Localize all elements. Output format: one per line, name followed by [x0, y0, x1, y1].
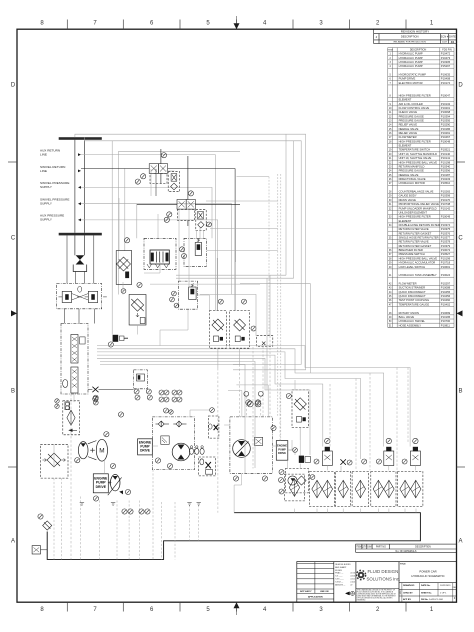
svg-text:NOT ASS'Y: NOT ASS'Y [300, 590, 312, 593]
sampling valve SV [257, 336, 273, 347]
svg-text:FLOW METER: FLOW METER [399, 282, 417, 286]
gauge above CA3 [413, 438, 418, 443]
hydraulic pump P1 [78, 442, 88, 459]
svg-text:10/22/2019: 10/22/2019 [440, 585, 451, 587]
svg-text:APPLICATION: APPLICATION [308, 596, 323, 599]
disclaimer text [356, 588, 399, 590]
svg-text:P10340: P10340 [441, 164, 451, 168]
swivel riser wires [74, 140, 76, 233]
svg-text:HYDRAULIC SCHEMATIC: HYDRAULIC SCHEMATIC [411, 574, 444, 578]
riser header h2 [119, 150, 241, 152]
svg-text:RELIEF VALVE: RELIEF VALVE [399, 131, 418, 135]
svg-text:FLUID DESIGN: FLUID DESIGN [368, 569, 399, 574]
svg-text:APP BY:: APP BY: [403, 598, 412, 601]
gauge G40 [347, 460, 352, 465]
gauge G19 [93, 396, 98, 401]
svg-text:DATE: DATE [449, 35, 456, 39]
gauge G27 [125, 489, 130, 494]
return filter RF6 [397, 472, 423, 507]
svg-text:U/M: U/M [367, 547, 371, 549]
gauge RFg1 [279, 478, 284, 483]
gauge G7 [207, 222, 212, 227]
svg-text:ELEMENT: ELEMENT [399, 219, 412, 223]
svg-text:ITEM: ITEM [356, 547, 362, 549]
charge pump P3 [172, 443, 190, 461]
swivel manifold bar bottom [59, 233, 102, 236]
svg-text:DESCRIPTION: DESCRIPTION [410, 49, 427, 52]
test points TP3 [159, 397, 164, 402]
gauge G39 [279, 470, 284, 475]
relief cartridge RV1 [62, 291, 71, 302]
svg-text:RETURN FILTER VALVE: RETURN FILTER VALVE [399, 240, 429, 244]
revision history table [374, 29, 457, 43]
svg-text:±1/16: ±1/16 [350, 573, 355, 575]
svg-text:B: B [458, 389, 462, 395]
gauge G41 [314, 459, 319, 464]
test points TP4 [172, 397, 177, 402]
svg-text:ENGINE: ENGINE [277, 444, 287, 448]
gauge G32 [255, 400, 260, 405]
gauge G35 [271, 425, 276, 430]
check row CR3 [200, 448, 204, 454]
high pressure filter F1 [129, 295, 146, 326]
svg-text:PUMP DRIVE: PUMP DRIVE [399, 77, 416, 81]
svg-text:PRESSURE GAUGE: PRESSURE GAUGE [399, 114, 424, 118]
svg-text:CHECK VALVE: CHECK VALVE [399, 110, 418, 114]
svg-text:P10738: P10738 [441, 202, 451, 206]
svg-text:FLOW CONTROL VALVE: FLOW CONTROL VALVE [399, 106, 430, 110]
aux return trunk [81, 155, 215, 311]
svg-text:D: D [11, 83, 16, 89]
svg-text:P10395: P10395 [441, 118, 451, 122]
swivel manifold bar top [59, 137, 102, 140]
staircase trunk s3 [97, 352, 361, 459]
main pump P4 [233, 440, 251, 458]
svg-text:D: D [458, 83, 463, 89]
svg-text:HOSE ASSEMBLY: HOSE ASSEMBLY [399, 323, 422, 327]
title text [400, 563, 406, 565]
engine pump drive EPD3 [276, 441, 288, 461]
filter F0b [196, 210, 206, 231]
gauge G34 [262, 476, 267, 481]
gauge G24b [104, 432, 109, 437]
riser drop v3 [124, 169, 126, 251]
svg-text:P10375: P10375 [441, 227, 451, 231]
gauge RFg2 [310, 475, 315, 480]
svg-text:HYDRAULIC PUMP: HYDRAULIC PUMP [399, 60, 423, 64]
swivel return flow line [81, 168, 149, 170]
hydrostatic pump P2 [110, 475, 120, 491]
staircase trunk s1 [97, 346, 410, 447]
filter F0a [168, 172, 179, 192]
gauge G13 [170, 297, 175, 302]
svg-text:UNLOADER ELEMENT: UNLOADER ELEMENT [399, 210, 428, 214]
wire to drain pair a [206, 200, 278, 202]
wire to drain pair b [210, 228, 278, 230]
svg-text:M: M [99, 448, 104, 455]
BOM header bar [356, 544, 457, 552]
svg-text:HYDRAULIC ACCUMULATOR: HYDRAULIC ACCUMULATOR [399, 261, 436, 265]
svg-text:P10455: P10455 [441, 290, 451, 294]
svg-text:ROTARY UNION: ROTARY UNION [399, 311, 419, 315]
svg-text:4/1: 4/1 [451, 40, 455, 44]
svg-text:P10199: P10199 [441, 256, 451, 260]
svg-text:P10201: P10201 [441, 106, 451, 110]
svg-text:QUICK DISCONNECT: QUICK DISCONNECT [399, 290, 426, 294]
wire S2 drop a [178, 208, 180, 282]
svg-text:DIRECTIONAL VALVE: DIRECTIONAL VALVE [399, 177, 426, 181]
engine pump drive EPD2 [138, 439, 153, 455]
gauge G30 [167, 463, 172, 468]
proportional valve manifold MV [61, 324, 88, 395]
svg-text:TEST POINT COUPLING: TEST POINT COUPLING [399, 298, 430, 302]
dual crossover relief block [57, 284, 102, 309]
pilot drain dashed pair [277, 174, 279, 417]
high pressure filter F4 [292, 390, 308, 428]
svg-text:P10186: P10186 [441, 127, 451, 131]
gauge G5 [164, 217, 169, 222]
third angle projection symbol [346, 591, 355, 595]
svg-text:RESERVED.: RESERVED. [357, 599, 366, 601]
svg-text:BREATHER FILTER: BREATHER FILTER [399, 248, 423, 252]
svg-text:REVISION HISTORY: REVISION HISTORY [401, 30, 429, 34]
riser node S1 [160, 149, 162, 164]
svg-text:P10047: P10047 [441, 93, 451, 97]
svg-text:HIGH PRESSURE FILTER: HIGH PRESSURE FILTER [399, 139, 431, 143]
gauge G38 [279, 489, 284, 494]
svg-text:P10700: P10700 [441, 319, 451, 323]
gauge above CA1 [325, 438, 330, 443]
wire return header [237, 176, 270, 178]
svg-text:ELEMENT: ELEMENT [399, 144, 412, 148]
return filter RF1 [284, 474, 304, 501]
svg-text:RETURN MANIFOLD: RETURN MANIFOLD [399, 164, 425, 168]
svg-text:P10394: P10394 [441, 114, 451, 118]
gauge F3a [55, 399, 59, 403]
quick disconnect QD1 [113, 335, 119, 342]
svg-text:GAUGE BODY: GAUGE BODY [399, 194, 417, 198]
pump motor coupling [88, 441, 97, 460]
wire corner E3 top [228, 390, 242, 417]
svg-text:DRIVE: DRIVE [278, 451, 286, 455]
svg-text:P10718: P10718 [441, 261, 451, 265]
svg-text:QUICK DISCONNECT: QUICK DISCONNECT [399, 294, 426, 298]
svg-text:HYDRAULIC PUMP: HYDRAULIC PUMP [399, 52, 423, 56]
svg-text:P10379: P10379 [441, 244, 451, 248]
tolerance notes [335, 564, 355, 586]
riser node S2 [187, 156, 189, 200]
gauge F3c [93, 395, 98, 400]
svg-text:P10378: P10378 [441, 240, 451, 244]
wire V3 tank drops [196, 230, 198, 238]
svg-text:P10527: P10527 [441, 252, 451, 256]
return filter F2a [209, 311, 226, 349]
staircase trunk s7 [100, 365, 245, 474]
svg-text:HYDROSTATIC PUMP: HYDROSTATIC PUMP [399, 73, 427, 77]
gauge G42 [362, 459, 367, 464]
gauge G14 [174, 303, 179, 308]
gauge G10 [182, 254, 187, 259]
bill of materials table [388, 48, 454, 328]
svg-text:DESCRIPTION: DESCRIPTION [415, 547, 431, 549]
test point pair TP6 [139, 509, 144, 514]
ball valve pair S1 [149, 164, 158, 174]
svg-text:P10291: P10291 [441, 131, 451, 135]
svg-text:P10233: P10233 [441, 177, 451, 181]
svg-text:DW No.: DW No. [421, 599, 429, 601]
svg-text:P10402: P10402 [441, 302, 451, 306]
svg-text:FRAC: —: FRAC: — [335, 572, 343, 575]
svg-text:P10068: P10068 [441, 110, 451, 114]
svg-text:P10460: P10460 [441, 298, 451, 302]
svg-text:X.X ——: X.X —— [335, 576, 342, 578]
svg-text:P10377: P10377 [441, 236, 451, 240]
cartridge valve drops [299, 464, 301, 469]
gauge G22 [135, 395, 140, 400]
svg-text:PRESSURE GAUGE: PRESSURE GAUGE [399, 169, 424, 173]
test point pair TP5 [122, 509, 127, 514]
svg-text:P10297: P10297 [441, 282, 451, 286]
svg-text:HYDRAULIC TANK ASSEMBLY: HYDRAULIC TANK ASSEMBLY [399, 273, 437, 277]
wire to drain pair c [206, 250, 277, 252]
relief cartridge RV2 [88, 291, 97, 302]
swivel pressure trunk 1 [81, 187, 212, 238]
svg-text:P10376: P10376 [441, 231, 451, 235]
gauge F3b [55, 404, 59, 408]
svg-text:UNIT 19, SHUTTLE MANIFOLD: UNIT 19, SHUTTLE MANIFOLD [399, 152, 437, 156]
solenoid valve cluster Q [134, 370, 148, 389]
return filter RF2 [310, 472, 335, 507]
svg-text:DATE No.: DATE No. [421, 584, 431, 587]
gauge G17 [251, 326, 256, 331]
circulation pump unit CPU [286, 468, 309, 493]
gauge G20 [134, 389, 139, 394]
gauge E2c [210, 408, 215, 413]
riser drop v1 [111, 141, 113, 335]
svg-text:NEEDLE VALVE: NEEDLE VALVE [399, 127, 419, 131]
main loop outer [75, 134, 306, 370]
svg-text:EDGES: EDGES [335, 570, 342, 572]
drain valve X1 [340, 459, 346, 465]
gauge G23 [147, 395, 152, 400]
return filter RF3 [336, 472, 351, 507]
svg-text:P10142: P10142 [441, 206, 451, 210]
svg-text:DRIVE: DRIVE [140, 449, 150, 453]
check+spring CS1 [199, 457, 216, 476]
svg-text:ITEM: ITEM [387, 50, 392, 52]
svg-text:ANGLES —: ANGLES — [335, 583, 345, 586]
main loop inner [85, 137, 302, 364]
gauge G36 [286, 394, 291, 399]
staircase trunk s6 [100, 361, 255, 468]
svg-text:ECN #: ECN # [441, 35, 449, 39]
svg-text:PART NO: PART NO [376, 546, 386, 549]
svg-text:SINGLE HOSE RETURN FILTER: SINGLE HOSE RETURN FILTER [399, 236, 439, 240]
test points TP1 [159, 390, 164, 395]
svg-text:DOUBLE HOSE RETURN FILTER: DOUBLE HOSE RETURN FILTER [399, 223, 440, 227]
check row CR2 [195, 448, 199, 454]
relief valve RV3 [161, 436, 169, 444]
svg-text:AND SHARP: AND SHARP [335, 566, 347, 569]
vertical feeders to filter bank [252, 347, 254, 469]
svg-text:LOW LEVEL SWITCH: LOW LEVEL SWITCH [399, 265, 426, 269]
svg-text:DESCRIPTION: DESCRIPTION [401, 35, 419, 39]
svg-text:TEMPERATURE GAUGE: TEMPERATURE GAUGE [399, 302, 430, 306]
staircase trunk s2 [97, 349, 384, 447]
flow control box FC2 [208, 416, 219, 438]
svg-text:DRAWN BY:: DRAWN BY: [403, 584, 415, 587]
svg-text:No. OF MATERIALS: No. OF MATERIALS [396, 550, 417, 553]
gauge G16 [242, 299, 247, 304]
check valve CV1 [158, 421, 164, 427]
gauge G8b [137, 282, 142, 287]
svg-text:RETURN FILTER GASKET: RETURN FILTER GASKET [399, 244, 432, 248]
valve S2 sub-box [178, 210, 195, 221]
svg-text:AIR & OIL COOLER: AIR & OIL COOLER [399, 102, 423, 106]
svg-text:P10510: P10510 [441, 181, 451, 185]
svg-text:PUMP UNLOADER MANIFOLD: PUMP UNLOADER MANIFOLD [399, 206, 437, 210]
pump enclosure E3 [230, 417, 273, 473]
port arrows [78, 153, 81, 156]
svg-text:DRIVE: DRIVE [96, 485, 107, 489]
electric motor M1 [96, 439, 107, 461]
drain tees [80, 503, 84, 506]
svg-text:P10396: P10396 [441, 169, 451, 173]
svg-text:±1°: ±1° [350, 584, 353, 586]
svg-text:P10049: P10049 [441, 215, 451, 219]
wire PR2 to filters [198, 295, 210, 311]
gauge above CA2 [386, 438, 391, 443]
svg-text:X.XXX —: X.XXX — [335, 581, 343, 583]
svg-text:PRESSURE GAUGE: PRESSURE GAUGE [399, 118, 424, 122]
gauge G29 [155, 458, 160, 463]
test point pair TP8 [258, 391, 263, 396]
suction line drops [53, 478, 55, 559]
svg-text:±0.06: ±0.06 [350, 576, 355, 578]
svg-text:FDS P/N: FDS P/N [442, 49, 452, 52]
svg-text:P10811: P10811 [441, 323, 451, 327]
ball valve pair S2 [177, 200, 186, 210]
svg-text:P10265: P10265 [441, 190, 451, 194]
svg-text:ELECTRIC MOTOR: ELECTRIC MOTOR [399, 81, 423, 85]
gauge G37 [293, 448, 298, 453]
return line drops [128, 501, 130, 560]
manifold M1 [144, 238, 176, 269]
gauge G44 [402, 459, 407, 464]
svg-text:P10408: P10408 [441, 77, 451, 81]
rotary union RU [76, 255, 85, 264]
svg-text:P10140: P10140 [441, 152, 451, 156]
svg-text:C: C [458, 236, 463, 242]
svg-text:P10635: P10635 [441, 73, 451, 77]
svg-text:USE ON: USE ON [320, 591, 329, 593]
svg-text:PROPORTIONAL RELIEF VALVE: PROPORTIONAL RELIEF VALVE [399, 202, 440, 206]
air oil cooler HX [116, 251, 132, 285]
gauge G25 [110, 463, 115, 468]
svg-text:BALL VALVE: BALL VALVE [399, 315, 415, 319]
svg-text:P10048: P10048 [441, 139, 451, 143]
wire EPD3 to cartridge [288, 450, 295, 455]
svg-text:HIGH PRESSURE BALL VALVE: HIGH PRESSURE BALL VALVE [399, 160, 438, 164]
svg-text:HYDRAULIC SWIVEL: HYDRAULIC SWIVEL [399, 319, 426, 323]
svg-text:P10198: P10198 [441, 160, 451, 164]
cartridge valve CA3 [410, 451, 420, 466]
test point pair TP7 [244, 391, 249, 396]
return filter F2b [230, 311, 250, 349]
svg-text:P10088: P10088 [441, 286, 451, 290]
compensator box CP1 [254, 437, 262, 445]
svg-text:HIGH PRESSURE FILTER: HIGH PRESSURE FILTER [399, 93, 431, 97]
svg-text:CHKD BY:: CHKD BY: [403, 593, 413, 595]
filter bank drops to header [294, 509, 296, 513]
gauge G18 [108, 342, 113, 347]
svg-text:P10024: P10024 [441, 273, 451, 277]
svg-text:1 OF 1: 1 OF 1 [440, 593, 447, 595]
pump enclosure E2 [152, 417, 194, 470]
pressure reducing unit PR2 [178, 281, 197, 309]
svg-text:ELEMENT: ELEMENT [399, 98, 412, 102]
svg-text:X.XX ——: X.XX —— [335, 579, 344, 581]
gauge E2a [164, 408, 169, 413]
svg-text:P10521: P10521 [441, 148, 451, 152]
gauge G43 [376, 459, 381, 464]
svg-text:P10472: P10472 [441, 52, 451, 56]
gauge E2b [169, 410, 173, 414]
svg-text:SUPPLY: SUPPLY [40, 185, 52, 189]
cartridge valve CA2 [384, 451, 394, 466]
level switch LS1 [32, 546, 40, 554]
riser drop v2 [118, 151, 120, 294]
company logo gear [356, 570, 365, 579]
directional valve DV1 [150, 250, 169, 264]
svg-text:UNIT 19, SHUTTLE VALVE: UNIT 19, SHUTTLE VALVE [399, 156, 432, 160]
port line labels [40, 149, 69, 222]
svg-text:P15297: P15297 [441, 64, 451, 68]
svg-text:1047: 1047 [442, 42, 448, 44]
svg-text:±.005: ±.005 [350, 581, 355, 583]
svg-text:SUPPLY: SUPPLY [40, 218, 52, 222]
svg-text:TEMPERATURE SWITCH: TEMPERATURE SWITCH [399, 148, 431, 152]
svg-text:DRAIN VALVE: DRAIN VALVE [399, 198, 417, 202]
pressure reducing unit PR1 [184, 238, 206, 266]
svg-text:PRESSURE SWITCH: PRESSURE SWITCH [399, 252, 425, 256]
svg-text:P10174: P10174 [441, 81, 451, 85]
gauge G2 [141, 174, 146, 179]
svg-text:RELEASED FOR PRODUCTION: RELEASED FOR PRODUCTION [394, 41, 427, 44]
svg-text:NEEDLE VALVE: NEEDLE VALVE [399, 173, 419, 177]
svg-text:HYDRAULIC PUMP: HYDRAULIC PUMP [399, 64, 423, 68]
svg-text:P10072: P10072 [441, 248, 451, 252]
breather filter B1 [43, 521, 52, 530]
svg-text:B: B [11, 389, 15, 395]
svg-text:LINE: LINE [40, 169, 47, 173]
needle valve NV1 [92, 387, 98, 393]
staircase trunk s4 [97, 355, 323, 446]
gauge G8 [124, 238, 129, 243]
svg-text:SOLUTIONS Inc.: SOLUTIONS Inc. [367, 577, 401, 582]
gauge G28 [93, 496, 98, 501]
svg-text:FLOW METER: FLOW METER [399, 135, 417, 139]
svg-text:HYDRAULIC PUMP: HYDRAULIC PUMP [399, 56, 423, 60]
gauge G3 [135, 179, 140, 184]
svg-text:LINE: LINE [40, 153, 47, 157]
staircase trunk s5 [97, 358, 310, 455]
suction strainer ST1 [41, 444, 69, 478]
gauge G12 [172, 291, 177, 296]
svg-text:REMOVE BURRS: REMOVE BURRS [335, 564, 351, 566]
svg-text:TITLE: TITLE [400, 563, 406, 565]
svg-text:P10132: P10132 [441, 102, 451, 106]
